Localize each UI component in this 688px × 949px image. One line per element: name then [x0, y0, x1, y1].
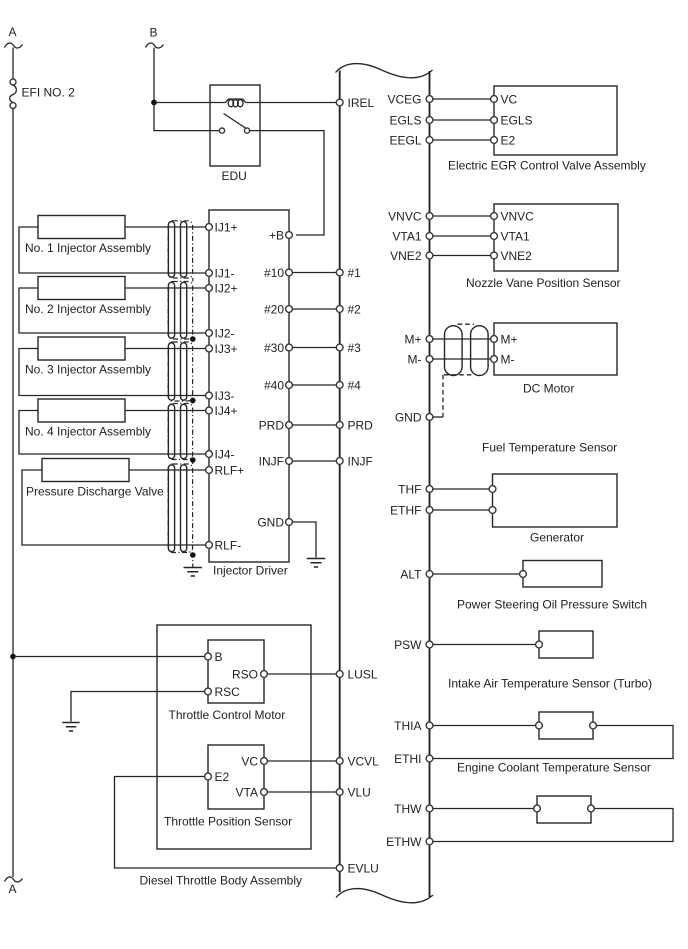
- diesel throttle body assembly outer box: [157, 625, 311, 849]
- shielded cable group 2 dashed shield: [168, 282, 192, 340]
- wire PDV return loop: [22, 470, 206, 545]
- svg-text:IJ1+: IJ1+: [215, 220, 238, 234]
- pin VNVC ecu: [426, 213, 433, 220]
- svg-text:#40: #40: [264, 378, 284, 392]
- wire ETHF: [433, 509, 489, 511]
- pin PRD ecu: [336, 422, 343, 429]
- pin RSC: [205, 688, 212, 695]
- pin VNVC nvps: [491, 213, 498, 220]
- svg-text:IREL: IREL: [348, 96, 375, 110]
- svg-text:DC Motor: DC Motor: [523, 382, 574, 396]
- wire motor shield drain dashed: [442, 375, 444, 417]
- pin ETHF gen: [489, 507, 496, 514]
- pin VCEG: [426, 96, 433, 103]
- break symbol B top: [146, 43, 164, 48]
- pin VTA: [261, 789, 268, 796]
- pin EGLS ecu: [426, 117, 433, 124]
- pin RSO: [261, 671, 268, 678]
- svg-text:Throttle Position Sensor: Throttle Position Sensor: [164, 814, 292, 828]
- relay EDU switch blade: [224, 114, 246, 129]
- pin PSW sensor: [536, 641, 543, 648]
- wire THW return to ETHW: [433, 809, 673, 842]
- pin M- ecu: [426, 356, 433, 363]
- wire #30 to #3: [292, 347, 336, 349]
- pin INJF ecu: [336, 458, 343, 465]
- wire ALT: [433, 573, 520, 575]
- svg-text:IJ4-: IJ4-: [215, 447, 235, 461]
- svg-text:ALT: ALT: [400, 567, 422, 581]
- svg-text:LUSL: LUSL: [348, 667, 378, 681]
- pin E2 tps: [205, 773, 212, 780]
- dc motor box: [494, 323, 617, 375]
- pin VTA1 ecu: [426, 233, 433, 240]
- wire EGLS: [433, 119, 491, 121]
- svg-text:VNVC: VNVC: [388, 209, 422, 223]
- wire THIA return to ETHI: [433, 726, 673, 759]
- pin E2 egr: [491, 137, 498, 144]
- shielded cable motor dashed shield bottom: [444, 374, 474, 376]
- svg-text:VTA: VTA: [236, 785, 258, 799]
- wire injector 1 plus: [125, 226, 206, 228]
- svg-text:IJ3-: IJ3-: [215, 389, 235, 403]
- svg-text:VC: VC: [241, 754, 258, 768]
- svg-text:VC: VC: [501, 92, 518, 106]
- shielded cable motor sleeves: [445, 326, 463, 376]
- svg-text:VNE2: VNE2: [390, 249, 422, 263]
- svg-text:ETHI: ETHI: [394, 752, 421, 766]
- svg-text:IJ1-: IJ1-: [215, 266, 235, 280]
- svg-text:THW: THW: [394, 802, 422, 816]
- pin IJ3-: [206, 392, 213, 399]
- pin IJ1+: [206, 224, 213, 231]
- svg-text:RLF-: RLF-: [215, 538, 242, 552]
- ground RSC: [62, 723, 79, 732]
- break symbol A bottom: [5, 877, 23, 882]
- wire VC to VCVL: [267, 760, 336, 762]
- ground driver GND: [307, 559, 326, 568]
- wire RSC to ground: [71, 692, 205, 722]
- wire EEGL: [433, 139, 491, 141]
- wire B to EDU coil to IREL: [157, 99, 336, 103]
- svg-text:E2: E2: [501, 133, 516, 147]
- wire M-: [433, 358, 491, 360]
- wire VNE2: [433, 255, 491, 257]
- wire M+: [433, 338, 491, 340]
- wire injector 2 plus: [125, 287, 206, 289]
- pin M- motor: [491, 356, 498, 363]
- pin IJ2-: [206, 330, 213, 337]
- svg-text:Electric EGR Control Valve Ass: Electric EGR Control Valve Assembly: [448, 158, 646, 172]
- ECU right bus line: [429, 71, 431, 897]
- shielded cable group 4 dashed shield: [168, 404, 192, 460]
- pin M+ ecu: [426, 336, 433, 343]
- shielded cable group 2 conductor sleeves: [168, 282, 174, 338]
- svg-text:INJF: INJF: [259, 454, 284, 468]
- svg-text:EFI NO. 2: EFI NO. 2: [22, 86, 76, 100]
- pin ETHW: [426, 838, 433, 845]
- wire THF: [433, 488, 489, 490]
- svg-text:RSO: RSO: [232, 667, 258, 681]
- break wave ECU top: [336, 64, 433, 78]
- svg-text:ETHF: ETHF: [390, 503, 421, 517]
- wire #40 to #4: [292, 384, 336, 386]
- shielded cable motor dashed shield top: [458, 323, 475, 325]
- pin #2: [336, 306, 343, 313]
- svg-text:#1: #1: [348, 266, 362, 280]
- svg-text:VCEG: VCEG: [387, 92, 421, 106]
- svg-text:GND: GND: [257, 515, 284, 529]
- wire shield drain dashed segments: [192, 278, 194, 567]
- svg-text:#3: #3: [348, 341, 362, 355]
- pin PSW: [426, 641, 433, 648]
- svg-text:Engine Coolant Temperature Sen: Engine Coolant Temperature Sensor: [457, 761, 651, 775]
- wire PRD: [292, 424, 336, 426]
- pin THIA sensor right: [590, 722, 597, 729]
- svg-text:No. 3 Injector Assembly: No. 3 Injector Assembly: [25, 363, 151, 377]
- pin #20: [286, 306, 293, 313]
- shielded cable group 1 dashed shield: [168, 221, 192, 278]
- svg-text:IJ2-: IJ2-: [215, 326, 235, 340]
- node shield junction 4: [190, 552, 196, 558]
- svg-text:PSW: PSW: [394, 638, 422, 652]
- svg-text:EDU: EDU: [222, 169, 247, 183]
- wire injector 4 return loop: [19, 411, 206, 455]
- node shield junction 1: [190, 336, 196, 342]
- pin THF gen: [489, 486, 496, 493]
- pin THF: [426, 486, 433, 493]
- svg-text:Injector Driver: Injector Driver: [213, 564, 288, 578]
- injector No. 1 coil box: [38, 216, 125, 239]
- relay EDU box: [210, 85, 260, 166]
- throttle position sensor box: [208, 745, 264, 809]
- wire injector 3 plus: [125, 348, 206, 350]
- pin IJ4-: [206, 451, 213, 458]
- svg-text:IJ4+: IJ4+: [215, 404, 238, 418]
- svg-text:#10: #10: [264, 266, 284, 280]
- wire VTA1: [433, 235, 491, 237]
- wire A bus lower: [12, 109, 14, 878]
- pin ETHI: [426, 755, 433, 762]
- svg-text:IJ3+: IJ3+: [215, 342, 238, 356]
- pin INJF driver: [286, 458, 293, 465]
- nozzle vane position sensor box: [494, 204, 618, 271]
- wire E2 to EVLU: [115, 777, 337, 869]
- svg-text:Fuel Temperature Sensor: Fuel Temperature Sensor: [482, 441, 617, 455]
- wire RSO to LUSL: [267, 673, 336, 675]
- wire VCEG: [433, 98, 491, 100]
- svg-text:A: A: [9, 882, 17, 896]
- svg-text:Nozzle Vane Position Sensor: Nozzle Vane Position Sensor: [466, 276, 621, 290]
- svg-text:RLF+: RLF+: [215, 463, 245, 477]
- pin RLF-: [206, 542, 213, 549]
- wire injector 1 return loop: [19, 227, 206, 273]
- pin VLU: [336, 789, 343, 796]
- break wave ECU bottom: [336, 889, 433, 903]
- throttle control motor box: [208, 640, 264, 703]
- svg-text:B: B: [215, 650, 223, 664]
- pressure discharge valve box: [42, 459, 129, 482]
- wire THW: [433, 808, 534, 810]
- injector No. 3 coil box: [38, 337, 125, 360]
- svg-text:E2: E2: [215, 770, 230, 784]
- pin GND driver: [286, 519, 293, 526]
- shielded cable group 3 conductor sleeves: [168, 343, 174, 400]
- power steering oil pressure switch box: [523, 561, 602, 588]
- svg-text:EVLU: EVLU: [348, 861, 379, 875]
- svg-text:THF: THF: [398, 482, 421, 496]
- wire PDV plus: [129, 469, 206, 471]
- pin THW sensor left: [534, 805, 541, 812]
- pin EEGL: [426, 137, 433, 144]
- wire B down to switch: [154, 103, 219, 131]
- svg-text:EGLS: EGLS: [389, 113, 421, 127]
- svg-text:B: B: [150, 26, 158, 40]
- pin #30: [286, 344, 293, 351]
- injector No. 2 coil box: [38, 277, 125, 300]
- relay EDU switch contacts: [219, 128, 224, 133]
- pin VTA1 nvps: [491, 233, 498, 240]
- pin VNE2 nvps: [491, 252, 498, 259]
- wire injector 2 return loop: [19, 288, 206, 333]
- shielded cable group 5 conductor sleeves: [168, 465, 174, 552]
- pin THW sensor right: [588, 805, 595, 812]
- svg-text:EGLS: EGLS: [501, 113, 533, 127]
- shielded cable group 1 conductor sleeves: [168, 222, 174, 278]
- pin GND ecu: [426, 414, 433, 421]
- wire #10 to #1: [292, 272, 336, 274]
- svg-text:RSC: RSC: [215, 685, 241, 699]
- pin THW: [426, 805, 433, 812]
- svg-text:VNE2: VNE2: [501, 249, 533, 263]
- wire injector 3 return loop: [19, 349, 206, 396]
- engine coolant temperature sensor box: [539, 712, 593, 739]
- pin VC egr: [491, 96, 498, 103]
- svg-text:No. 2 Injector Assembly: No. 2 Injector Assembly: [25, 302, 151, 316]
- svg-text:Generator: Generator: [530, 530, 584, 544]
- pin #4: [336, 382, 343, 389]
- svg-text:GND: GND: [395, 410, 422, 424]
- pin ALT switch: [520, 571, 527, 578]
- wire switch to +B: [250, 131, 324, 235]
- wire INJF: [292, 460, 336, 462]
- svg-text:VTA1: VTA1: [501, 229, 530, 243]
- pin THIA sensor left: [536, 722, 543, 729]
- svg-text:EEGL: EEGL: [389, 133, 421, 147]
- wire GND driver to ground: [292, 522, 316, 558]
- svg-text:Intake Air Temperature Sensor: Intake Air Temperature Sensor (Turbo): [448, 676, 652, 690]
- relay EDU coil loops: [228, 100, 233, 107]
- wire THIA: [433, 725, 536, 727]
- pin M+ motor: [491, 336, 498, 343]
- node shield junction 2: [190, 398, 196, 404]
- pin IREL: [336, 99, 343, 106]
- electric EGR control valve assembly box: [494, 86, 617, 155]
- svg-text:Throttle Control Motor: Throttle Control Motor: [169, 708, 286, 722]
- wire VNVC: [433, 215, 491, 217]
- node junction on B wire: [151, 100, 157, 106]
- svg-text:PRD: PRD: [259, 418, 285, 432]
- intake air temperature sensor box: [539, 631, 593, 658]
- svg-text:VLU: VLU: [348, 785, 371, 799]
- wire B bus: [153, 48, 155, 103]
- fuse EFI NO. 2: [10, 79, 16, 85]
- wire A bus to B pin: [13, 656, 205, 658]
- svg-text:#20: #20: [264, 302, 284, 316]
- svg-text:Diesel Throttle Body Assembly: Diesel Throttle Body Assembly: [140, 873, 303, 887]
- svg-text:PRD: PRD: [348, 418, 374, 432]
- svg-text:M+: M+: [404, 332, 421, 346]
- break symbol A top: [5, 43, 23, 48]
- svg-text:M-: M-: [408, 352, 422, 366]
- pin B tcm: [205, 653, 212, 660]
- pin VC tps: [261, 758, 268, 765]
- svg-text:VNVC: VNVC: [501, 209, 535, 223]
- svg-text:#2: #2: [348, 302, 362, 316]
- pin EGLS egr: [491, 117, 498, 124]
- svg-text:#30: #30: [264, 341, 284, 355]
- shielded cable group 4 conductor sleeves: [168, 404, 174, 458]
- wire VTA to VLU: [267, 791, 336, 793]
- svg-text:VTA1: VTA1: [392, 229, 421, 243]
- shielded cable group 5 dashed shield: [168, 464, 192, 553]
- svg-text:IJ2+: IJ2+: [215, 281, 238, 295]
- pin ETHF: [426, 507, 433, 514]
- svg-text:Pressure Discharge Valve: Pressure Discharge Valve: [26, 485, 164, 499]
- pin #3: [336, 344, 343, 351]
- pin #40: [286, 382, 293, 389]
- wire injector 4 plus: [125, 410, 206, 412]
- pin IJ2+: [206, 285, 213, 292]
- svg-text:VCVL: VCVL: [348, 754, 380, 768]
- svg-text:ETHW: ETHW: [386, 835, 422, 849]
- shielded cable group 3 dashed shield: [168, 342, 192, 401]
- wire PSW: [433, 644, 536, 646]
- pin ALT: [426, 571, 433, 578]
- pin THIA: [426, 722, 433, 729]
- node shield junction 3: [190, 457, 196, 463]
- pin +B: [286, 232, 293, 239]
- pin IJ1-: [206, 270, 213, 277]
- node junction on A bus: [10, 654, 16, 660]
- svg-text:INJF: INJF: [348, 454, 373, 468]
- ECU left bus line: [339, 71, 341, 893]
- svg-text:THIA: THIA: [394, 719, 421, 733]
- svg-text:+B: +B: [269, 228, 284, 242]
- injector No. 4 coil box: [38, 399, 125, 422]
- generator box: [493, 474, 618, 527]
- injector driver box: [209, 210, 289, 562]
- wire A bus upper: [12, 48, 14, 80]
- pin EVLU: [336, 865, 343, 872]
- pin PRD driver: [286, 422, 293, 429]
- pin #10: [286, 269, 293, 276]
- pin IJ3+: [206, 345, 213, 352]
- svg-text:Power Steering Oil Pressure Sw: Power Steering Oil Pressure Switch: [457, 597, 647, 611]
- svg-text:M+: M+: [501, 332, 518, 346]
- pin IJ4+: [206, 407, 213, 414]
- svg-text:A: A: [9, 25, 17, 39]
- pin VCVL: [336, 758, 343, 765]
- engine coolant temp sensor 2 box: [537, 796, 591, 823]
- svg-text:M-: M-: [501, 352, 515, 366]
- pin RLF+: [206, 467, 213, 474]
- svg-text:No. 1 Injector Assembly: No. 1 Injector Assembly: [25, 241, 151, 255]
- pin #1: [336, 269, 343, 276]
- pin VNE2 ecu: [426, 252, 433, 259]
- ground shield drain: [184, 568, 203, 577]
- svg-text:No. 4 Injector Assembly: No. 4 Injector Assembly: [25, 425, 151, 439]
- wire #20 to #2: [292, 308, 336, 310]
- svg-text:#4: #4: [348, 378, 362, 392]
- pin LUSL: [336, 671, 343, 678]
